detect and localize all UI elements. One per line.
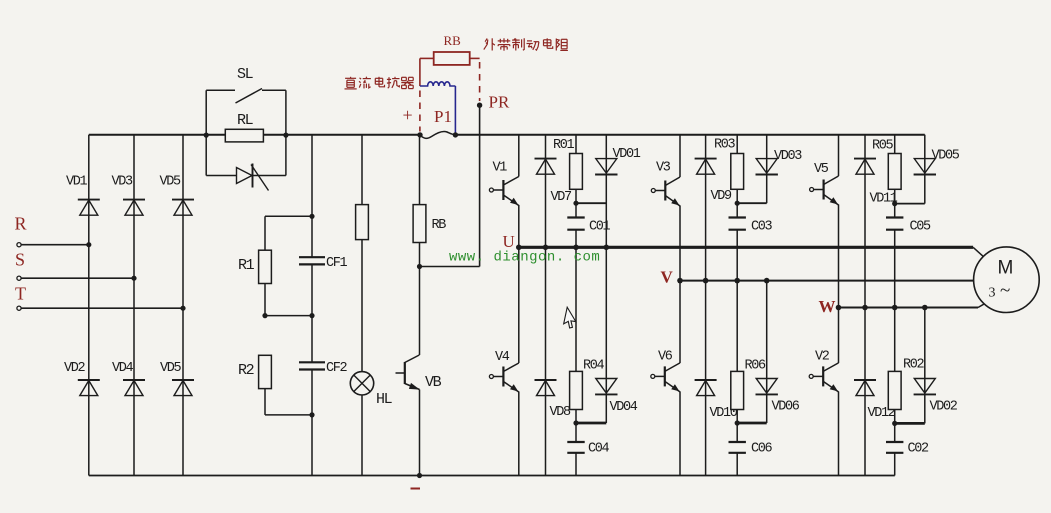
wire VD9 column: [705, 135, 707, 476]
svg-text:U: U: [503, 232, 515, 251]
transistor V4: [489, 350, 518, 392]
node VB emitter on - bus: [417, 473, 422, 478]
svg-text:V: V: [661, 268, 674, 287]
resistor RB external: [434, 33, 470, 65]
watermark www.diangon.com: [449, 250, 600, 266]
wire V6 collector: [679, 281, 681, 363]
wire rectifier column 2: [133, 135, 135, 476]
node V5 emitter on W bus: [836, 305, 842, 311]
wire CF column: [311, 135, 313, 476]
svg-text:VD02: VD02: [930, 400, 958, 415]
svg-text:VD2: VD2: [64, 361, 86, 376]
resistor bleeder: [356, 205, 369, 240]
diode VD05: [914, 149, 960, 175]
wire rectifier column 3: [182, 135, 184, 476]
transistor V5: [810, 162, 839, 205]
motor M: [974, 247, 1040, 313]
svg-text:VD5: VD5: [160, 361, 182, 376]
svg-text:R05: R05: [872, 139, 894, 154]
wire VD04 column: [605, 247, 607, 423]
wire SL box right edge: [285, 90, 287, 175]
capacitor CF1: [299, 256, 348, 271]
transistor V3: [651, 161, 680, 207]
svg-text:R06: R06: [745, 359, 767, 374]
wire R03-VD03 link: [737, 202, 767, 204]
svg-text:C03: C03: [751, 220, 773, 235]
node R03 bottom: [735, 201, 740, 206]
wire RB to PR link: [420, 266, 480, 268]
resistor R02: [888, 358, 924, 410]
svg-text:R1: R1: [238, 257, 255, 274]
diode VD9: [695, 159, 732, 204]
diode VD12: [854, 380, 896, 421]
wire R06-VD06 link: [737, 422, 767, 425]
wire W output bus: [839, 303, 986, 307]
wire VB collector: [419, 267, 421, 356]
capacitor C05: [886, 218, 931, 235]
wire U output bus: [517, 247, 984, 257]
wire V output bus: [680, 280, 974, 282]
svg-text:C04: C04: [588, 442, 610, 457]
svg-text:+: +: [403, 105, 413, 125]
svg-text:CF1: CF1: [326, 256, 348, 271]
svg-text:S: S: [15, 250, 25, 270]
node PR: [477, 103, 482, 108]
diode VD6 (labelled VD5): [160, 361, 194, 396]
svg-text:C06: C06: [751, 442, 773, 457]
svg-text:VD06: VD06: [772, 400, 800, 415]
wire V4 collector: [518, 247, 520, 363]
wire V1 collector: [518, 135, 520, 177]
svg-text:VD7: VD7: [551, 190, 573, 205]
wire VD7 column: [545, 135, 547, 476]
svg-text:VD04: VD04: [610, 400, 638, 415]
resistor R03: [714, 138, 744, 190]
node T junction: [180, 306, 185, 311]
node R junction: [86, 242, 91, 247]
mouse cursor: [563, 307, 578, 329]
wire bottom DC- bus: [89, 475, 895, 477]
svg-text:3: 3: [989, 286, 996, 301]
diode VD2: [64, 361, 100, 396]
resistor R1: [238, 250, 271, 283]
diode VD02: [914, 379, 958, 415]
node C01 on U bus: [573, 245, 579, 251]
node VD7 on U bus: [543, 245, 549, 251]
node C03 on V bus: [734, 278, 740, 284]
wire bleeder column: [361, 135, 363, 476]
label V: [661, 268, 674, 287]
wire V6 emitter: [679, 392, 681, 476]
node C05 on W bus: [892, 305, 898, 311]
wire R1 bottom link: [265, 284, 312, 316]
wire V5 emitter: [838, 205, 840, 308]
svg-text:RB: RB: [432, 218, 447, 233]
svg-text:R03: R03: [714, 138, 736, 153]
svg-text:VD4: VD4: [112, 361, 134, 376]
wire V5 collector: [838, 135, 840, 176]
wire V3 collector: [679, 135, 681, 177]
transistor VB: [396, 355, 442, 391]
jumper P1 squiggle: [417, 131, 458, 138]
wire top DC+ bus: [89, 134, 925, 136]
node R06 bottom: [735, 420, 740, 425]
wire RB ext right lead: [470, 57, 480, 59]
svg-text:V5: V5: [814, 162, 829, 177]
transistor V1: [489, 161, 518, 206]
svg-text:VD5: VD5: [160, 175, 182, 190]
transistor V2: [809, 350, 838, 392]
wire VD05 column: [924, 135, 926, 204]
label +: [403, 105, 413, 125]
svg-text:www. diangon. com: www. diangon. com: [449, 250, 600, 266]
svg-text:V4: V4: [495, 350, 510, 365]
svg-text:VD03: VD03: [774, 149, 802, 164]
wire RB ext left lead: [420, 58, 434, 86]
node S junction: [131, 276, 136, 281]
resistor RB: [413, 205, 446, 243]
wire V3 emitter: [679, 206, 681, 281]
label - (negative bus): [411, 488, 421, 490]
svg-text:C02: C02: [908, 442, 930, 457]
resistor R01: [553, 138, 582, 189]
svg-text:V3: V3: [656, 161, 671, 176]
wire R01 column: [575, 135, 577, 476]
diode VD3: [112, 175, 146, 216]
capacitor CF2: [299, 361, 348, 376]
capacitor C06: [729, 442, 773, 457]
wire R03 column: [736, 135, 738, 476]
transistor V6: [651, 350, 680, 392]
svg-text:PR: PR: [489, 93, 510, 112]
svg-text:VD1: VD1: [66, 175, 88, 190]
svg-text:V2: V2: [815, 350, 830, 365]
node CF2 bottom: [309, 412, 314, 417]
capacitor C03: [729, 218, 773, 235]
wire R01-VD01 link: [576, 202, 606, 204]
svg-text:W: W: [819, 297, 836, 316]
wire R05-VD05 link: [895, 203, 925, 205]
resistor R06: [731, 359, 766, 410]
wire VD11 column: [864, 135, 866, 476]
wire P1 right lead: [454, 86, 456, 135]
svg-text:CF2: CF2: [326, 361, 348, 376]
svg-text:VD8: VD8: [550, 405, 572, 420]
svg-text:R04: R04: [583, 359, 605, 374]
node VD01 on U bus: [604, 245, 610, 251]
svg-text:VD3: VD3: [112, 175, 134, 190]
resistor R04: [570, 359, 605, 410]
capacitor C02: [886, 442, 929, 457]
inductor P1 coil: [420, 82, 456, 86]
wire RB column: [419, 135, 421, 267]
capacitor C01: [567, 218, 610, 235]
resistor RL: [225, 112, 263, 142]
svg-text:SL: SL: [237, 66, 254, 83]
capacitor C04: [567, 442, 609, 457]
node VD11 on W bus: [862, 305, 868, 311]
wire dashed option left: [419, 91, 421, 132]
wire SL box left edge: [205, 90, 207, 175]
node VD06 on V bus: [764, 278, 770, 284]
wire R02-VD02 link: [895, 422, 925, 425]
resistor R2: [238, 355, 271, 388]
svg-text:VD01: VD01: [613, 147, 641, 162]
node R04 bottom: [573, 420, 578, 425]
svg-text:~: ~: [1000, 280, 1010, 301]
svg-text:V6: V6: [658, 350, 673, 365]
diode VD8: [535, 380, 572, 420]
svg-text:M: M: [998, 258, 1014, 279]
terminal S: [15, 250, 134, 281]
resistor R05: [872, 139, 901, 190]
node R1-R2 junction: [262, 313, 314, 318]
label P1: [434, 107, 452, 126]
wire R05 column: [894, 135, 896, 476]
node CF1 top: [309, 214, 314, 219]
svg-text:VB: VB: [425, 374, 442, 391]
lamp HL: [350, 372, 392, 408]
svg-text:V1: V1: [493, 161, 508, 176]
diode VD10: [695, 380, 738, 421]
diode VD03: [756, 149, 803, 175]
svg-text:T: T: [15, 284, 26, 304]
svg-text:HL: HL: [376, 391, 393, 408]
diode VD04: [595, 379, 638, 416]
diode VD11: [854, 159, 898, 207]
node R02 bottom: [892, 421, 897, 426]
node RL right: [283, 133, 288, 138]
diode VD7: [535, 159, 573, 205]
svg-text:R2: R2: [238, 362, 254, 379]
caption 外带制动电阻 (external braking resistor): [484, 38, 568, 50]
svg-text:R02: R02: [903, 358, 925, 373]
node V3 emitter on V bus: [677, 278, 683, 284]
svg-text:C01: C01: [589, 220, 611, 235]
wire VD03 column: [766, 135, 768, 204]
diode VD4: [112, 361, 145, 396]
wire V2 collector: [838, 308, 840, 364]
label U: [503, 232, 515, 251]
terminal T: [15, 284, 183, 311]
node RL left: [204, 133, 209, 138]
thyristor (surge clamp) in SL box: [237, 164, 269, 191]
node RB bottom: [417, 264, 422, 269]
wire VD02 column: [924, 308, 926, 424]
node R01 bottom: [573, 201, 578, 206]
wire rectifier column 1: [88, 135, 90, 476]
wire SL box bottom edge: [206, 175, 286, 177]
wire V4 emitter: [518, 392, 520, 476]
wire R04-VD04 link: [576, 422, 606, 425]
wire VB emitter: [419, 390, 421, 476]
diode VD06: [756, 379, 800, 415]
wire R2 bottom link: [265, 389, 312, 415]
label W: [819, 297, 836, 316]
svg-text:P1: P1: [434, 107, 452, 126]
label PR: [489, 93, 510, 112]
wire PR column: [479, 105, 481, 266]
diode VD1: [66, 175, 100, 216]
node VD02 on W bus: [922, 305, 928, 311]
node VD9 on V bus: [703, 278, 709, 284]
wire VD01 column: [605, 135, 607, 248]
node V1 emitter on U bus: [516, 245, 522, 251]
svg-text:C05: C05: [910, 220, 932, 235]
wire dashed option right: [479, 62, 481, 101]
diode VD01: [595, 147, 641, 175]
diode VD5: [160, 175, 195, 216]
svg-text:R: R: [15, 214, 27, 234]
wire V2 emitter: [838, 392, 840, 476]
wire VD06 column: [766, 281, 768, 423]
wire R1 top link: [265, 216, 312, 250]
switch SL: [206, 66, 286, 103]
terminal R: [15, 214, 89, 247]
svg-text:RB: RB: [444, 33, 462, 48]
svg-text:R01: R01: [553, 138, 575, 153]
node R05 bottom: [892, 201, 897, 206]
svg-text:RL: RL: [237, 112, 254, 129]
caption 直流电抗器 (DC reactor): [345, 77, 414, 89]
svg-text:VD9: VD9: [711, 189, 733, 204]
svg-text:VD05: VD05: [932, 149, 960, 164]
wire V1 emitter: [518, 205, 520, 247]
